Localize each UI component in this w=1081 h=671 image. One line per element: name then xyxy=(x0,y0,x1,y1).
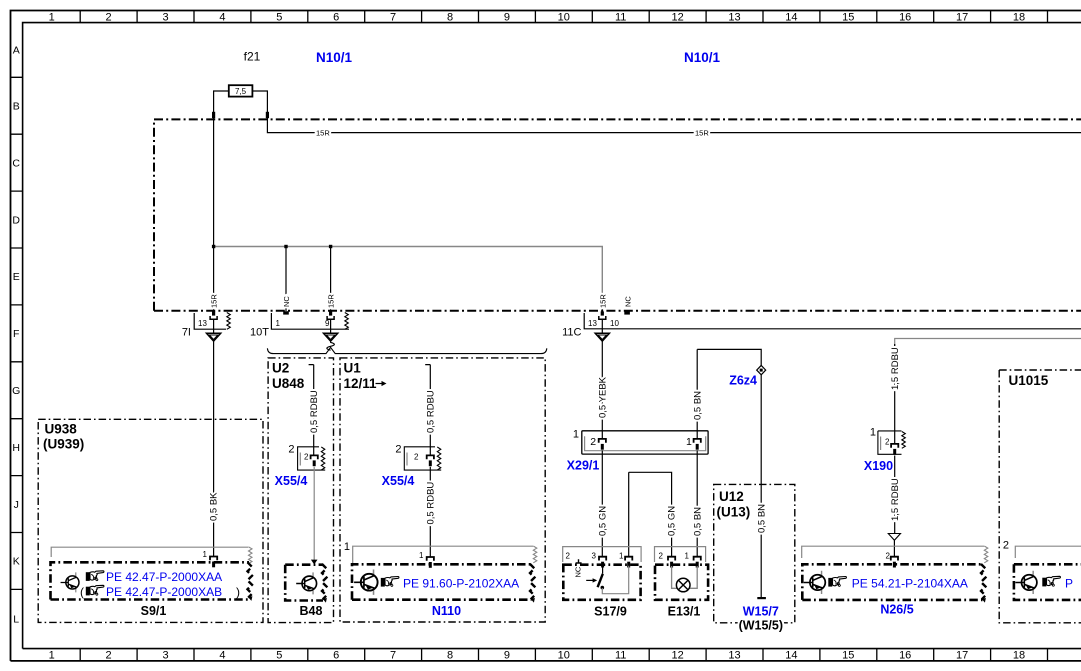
svg-text:D: D xyxy=(12,214,20,226)
svg-text:0,5 RDBU: 0,5 RDBU xyxy=(425,482,436,525)
svg-text:(U939): (U939) xyxy=(43,437,84,452)
svg-text:14: 14 xyxy=(785,12,797,24)
svg-text:15R: 15R xyxy=(695,129,709,138)
svg-text:10T: 10T xyxy=(250,327,269,339)
svg-text:X190: X190 xyxy=(864,459,893,473)
svg-text:1: 1 xyxy=(276,319,281,328)
svg-text:2: 2 xyxy=(566,552,571,561)
svg-text:1: 1 xyxy=(344,541,350,553)
svg-text:U938: U938 xyxy=(45,421,78,436)
svg-text:1: 1 xyxy=(619,552,624,561)
svg-text:0,5 RDBU: 0,5 RDBU xyxy=(309,390,320,433)
svg-text:10: 10 xyxy=(610,319,619,328)
svg-text:0,5 BN: 0,5 BN xyxy=(692,391,703,420)
svg-text:K: K xyxy=(13,556,20,568)
svg-text:12: 12 xyxy=(671,650,683,662)
svg-text:6: 6 xyxy=(333,12,339,24)
svg-text:18: 18 xyxy=(1013,650,1025,662)
svg-text:3: 3 xyxy=(592,552,597,561)
svg-text:X29/1: X29/1 xyxy=(567,458,600,472)
svg-text:10: 10 xyxy=(558,650,570,662)
svg-text:(U13): (U13) xyxy=(717,504,751,519)
svg-text:7: 7 xyxy=(390,650,396,662)
svg-text:W15/7: W15/7 xyxy=(743,605,779,619)
svg-text:S9/1: S9/1 xyxy=(141,604,167,618)
svg-text:E13/1: E13/1 xyxy=(668,604,701,618)
svg-text:N110: N110 xyxy=(432,604,461,618)
svg-text:13: 13 xyxy=(198,319,207,328)
svg-text:2: 2 xyxy=(288,444,294,456)
svg-text:P: P xyxy=(1065,577,1073,591)
svg-text:3: 3 xyxy=(162,12,168,24)
svg-text:7,5: 7,5 xyxy=(235,87,247,96)
svg-text:1: 1 xyxy=(870,427,876,439)
svg-text:11: 11 xyxy=(615,650,626,662)
svg-text:0,5 GN: 0,5 GN xyxy=(597,506,608,536)
svg-text:9: 9 xyxy=(504,12,510,24)
svg-text:PE 42.47-P-2000XAB: PE 42.47-P-2000XAB xyxy=(106,585,222,599)
svg-text:17: 17 xyxy=(956,12,968,24)
svg-text:12: 12 xyxy=(671,12,683,24)
svg-text:2: 2 xyxy=(1003,540,1009,552)
svg-text:0,5 BK: 0,5 BK xyxy=(209,492,220,521)
svg-text:N26/5: N26/5 xyxy=(880,602,913,616)
svg-text:0,5 BN: 0,5 BN xyxy=(756,504,767,533)
svg-text:3: 3 xyxy=(162,650,168,662)
svg-text:0,5 RDBU: 0,5 RDBU xyxy=(425,390,436,433)
svg-text:L: L xyxy=(13,614,19,626)
svg-text:X55/4: X55/4 xyxy=(382,474,415,488)
svg-text:12/11: 12/11 xyxy=(344,376,378,391)
svg-text:f21: f21 xyxy=(244,50,261,64)
svg-text:2: 2 xyxy=(106,12,112,24)
svg-text:A: A xyxy=(13,45,20,57)
svg-text:N10/1: N10/1 xyxy=(316,50,353,65)
svg-text:1: 1 xyxy=(685,552,690,561)
svg-text:U848: U848 xyxy=(272,376,305,391)
svg-text:): ) xyxy=(236,585,240,599)
svg-text:(: ( xyxy=(80,585,84,599)
svg-text:16: 16 xyxy=(899,12,911,24)
svg-text:PE 42.47-P-2000XAA: PE 42.47-P-2000XAA xyxy=(106,570,222,584)
svg-text:N10/1: N10/1 xyxy=(684,50,721,65)
svg-text:15: 15 xyxy=(842,12,854,24)
svg-text:PE 54.21-P-2104XAA: PE 54.21-P-2104XAA xyxy=(852,577,968,591)
svg-text:7: 7 xyxy=(390,12,396,24)
svg-text:13: 13 xyxy=(728,650,740,662)
svg-text:6: 6 xyxy=(333,650,339,662)
svg-text:4: 4 xyxy=(219,12,225,24)
svg-text:15R: 15R xyxy=(327,294,336,308)
svg-text:0,5 GN: 0,5 GN xyxy=(667,506,678,536)
svg-text:2: 2 xyxy=(106,650,112,662)
svg-text:1: 1 xyxy=(573,429,579,441)
svg-text:18: 18 xyxy=(1013,12,1025,24)
svg-text:1: 1 xyxy=(49,650,55,662)
svg-text:H: H xyxy=(12,442,20,454)
svg-text:5: 5 xyxy=(276,650,282,662)
svg-text:G: G xyxy=(12,385,20,397)
svg-text:9: 9 xyxy=(325,319,330,328)
svg-text:(W15/5): (W15/5) xyxy=(739,619,783,633)
svg-text:7I: 7I xyxy=(182,327,191,339)
svg-text:U1015: U1015 xyxy=(1009,373,1049,388)
svg-text:2: 2 xyxy=(886,552,891,561)
svg-text:F: F xyxy=(13,328,19,340)
svg-text:9: 9 xyxy=(504,650,510,662)
svg-text:2: 2 xyxy=(395,444,401,456)
svg-text:14: 14 xyxy=(785,650,797,662)
svg-text:E: E xyxy=(13,271,20,283)
svg-text:15R: 15R xyxy=(599,294,608,308)
svg-text:2: 2 xyxy=(885,437,890,446)
svg-text:0,5 YEBK: 0,5 YEBK xyxy=(597,376,608,418)
svg-text:Z6z4: Z6z4 xyxy=(729,374,757,388)
svg-text:11C: 11C xyxy=(562,327,581,339)
svg-text:C: C xyxy=(12,157,20,169)
svg-text:13: 13 xyxy=(588,319,597,328)
svg-text:J: J xyxy=(14,499,19,511)
svg-text:2: 2 xyxy=(304,453,309,462)
svg-text:PE 91.60-P-2102XAA: PE 91.60-P-2102XAA xyxy=(403,576,519,590)
svg-text:15R: 15R xyxy=(316,129,330,138)
svg-text:10: 10 xyxy=(558,12,570,24)
svg-text:2: 2 xyxy=(414,453,419,462)
svg-text:15: 15 xyxy=(842,650,854,662)
svg-text:1,5 RDBU: 1,5 RDBU xyxy=(890,478,901,521)
svg-text:0,5 BN: 0,5 BN xyxy=(692,507,703,536)
svg-text:17: 17 xyxy=(956,650,968,662)
svg-text:15R: 15R xyxy=(210,294,219,308)
svg-text:5: 5 xyxy=(276,12,282,24)
svg-text:1: 1 xyxy=(419,551,424,560)
svg-text:1,5 RDBU: 1,5 RDBU xyxy=(890,347,901,390)
svg-text:B: B xyxy=(13,101,20,113)
svg-text:B48: B48 xyxy=(300,604,323,618)
svg-text:8: 8 xyxy=(447,12,453,24)
svg-text:NC: NC xyxy=(624,296,633,307)
svg-text:U12: U12 xyxy=(719,489,744,504)
svg-text:U2: U2 xyxy=(272,361,289,376)
svg-text:X55/4: X55/4 xyxy=(275,474,308,488)
svg-text:1: 1 xyxy=(203,550,208,559)
svg-text:8: 8 xyxy=(447,650,453,662)
svg-text:1: 1 xyxy=(686,436,692,448)
svg-text:11: 11 xyxy=(615,12,626,24)
svg-text:2: 2 xyxy=(659,552,664,561)
svg-text:4: 4 xyxy=(219,650,225,662)
svg-text:NC: NC xyxy=(574,566,583,577)
svg-text:16: 16 xyxy=(899,650,911,662)
svg-text:2: 2 xyxy=(590,436,596,448)
svg-text:NC: NC xyxy=(282,296,291,307)
svg-text:U1: U1 xyxy=(344,361,362,376)
svg-text:S17/9: S17/9 xyxy=(594,604,627,618)
svg-text:1: 1 xyxy=(49,12,55,24)
svg-text:13: 13 xyxy=(728,12,740,24)
